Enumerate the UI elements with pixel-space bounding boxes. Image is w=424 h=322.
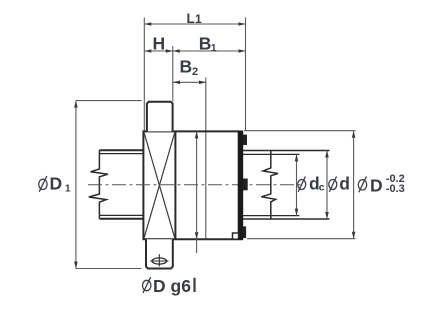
svg-text:2: 2: [192, 66, 198, 78]
grease hole vertical tick: [158, 254, 160, 266]
dimension phi-d arrows: [325, 151, 329, 220]
extension line phi-D1 top: [76, 100, 142, 102]
dimension phi-dc arrows: [295, 154, 299, 215]
labyrinth tab middle: [243, 179, 248, 191]
svg-text:H: H: [153, 33, 166, 53]
grease hole ellipse: [152, 258, 167, 264]
screw shaft right root top: [243, 153, 300, 155]
screw shaft left root bottom: [99, 214, 143, 216]
grease hole horizontal tick: [150, 260, 168, 262]
svg-text:D: D: [50, 173, 63, 193]
flange cross diagonal 1: [144, 132, 175, 239]
dimension phi-d vertical line: [326, 151, 328, 220]
dimension B2 line: [173, 81, 206, 83]
dimension phi-D arrows: [352, 131, 356, 239]
dimension L1 arrows: [144, 22, 245, 26]
label phi-D1: [39, 173, 71, 194]
dimension L1 line: [144, 23, 245, 25]
extension line B2 right (internal nut line): [205, 78, 207, 240]
labyrinth tab bottom: [243, 226, 246, 238]
dimension phi-D vertical line: [353, 131, 355, 239]
nut body top edge: [175, 130, 238, 132]
bottom journal cap: [146, 239, 173, 268]
dimension B1 arrows: [173, 49, 246, 53]
nut body bottom edge: [175, 238, 238, 240]
dimension B2 arrows: [173, 81, 206, 85]
svg-text:D: D: [370, 176, 383, 196]
svg-text:-0.3: -0.3: [386, 183, 405, 195]
center line: [88, 184, 302, 186]
dimension phi-dc vertical line: [296, 154, 298, 215]
flange body: [143, 131, 175, 239]
dimension H/B1 line: [144, 50, 245, 52]
svg-text:c: c: [319, 182, 325, 194]
svg-text:1: 1: [211, 42, 217, 54]
screw shaft left root top: [99, 153, 143, 155]
svg-text:1: 1: [195, 12, 202, 26]
seal plate (black bar): [238, 131, 244, 241]
svg-text:B: B: [199, 33, 212, 53]
extension line nut top to phi-D: [244, 130, 356, 132]
screw shaft left break line: [89, 150, 108, 219]
extension line left (L1/H): [143, 18, 145, 132]
extension line phi-D1 bottom: [76, 268, 142, 270]
label phi-dc: [298, 174, 325, 194]
svg-text:d: d: [339, 174, 350, 194]
svg-text:D g6: D g6: [153, 276, 191, 296]
dimension phi-D1 arrows: [74, 101, 78, 269]
extension line nut bottom to phi-D: [247, 238, 356, 240]
screw shaft right crest bottom: [243, 218, 330, 220]
svg-text:L: L: [187, 11, 195, 26]
screw shaft right root bottom: [243, 215, 300, 217]
label phi-D with tolerance: [358, 173, 404, 196]
extension line mid (H right / B2 left): [172, 46, 174, 102]
flange cross diagonal 2: [144, 132, 175, 239]
dimension H arrows: [144, 49, 173, 53]
text cursor bar: [193, 278, 195, 292]
screw shaft left crest top: [99, 149, 143, 151]
top journal cap: [147, 102, 173, 132]
internal dimension arrows: [195, 131, 199, 239]
internal dimension line phi-D g6: [196, 131, 198, 253]
screw shaft right crest top: [243, 150, 330, 152]
wiper step bottom-left: [233, 233, 239, 239]
extension line right (L1/B1): [245, 18, 247, 131]
labyrinth tab top: [243, 135, 247, 145]
svg-text:1: 1: [65, 183, 71, 194]
label phi-d: [329, 174, 350, 194]
svg-text:B: B: [180, 57, 193, 77]
screw shaft left crest bottom: [99, 218, 143, 220]
screw shaft right break line: [261, 151, 278, 220]
label phi-D g6: [143, 276, 192, 296]
dimension phi-D1 vertical line: [75, 101, 77, 269]
